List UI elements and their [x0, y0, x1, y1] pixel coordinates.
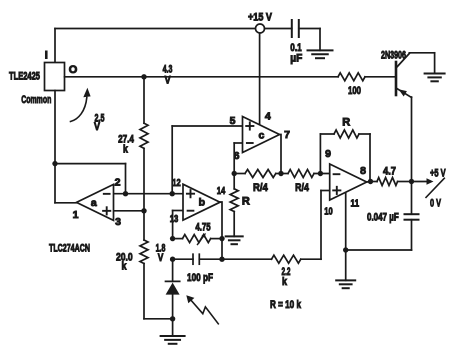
- svg-text:1: 1: [73, 209, 79, 221]
- svg-text:b: b: [199, 196, 205, 208]
- svg-text:7: 7: [284, 129, 290, 141]
- svg-text:+15 V: +15 V: [248, 12, 273, 24]
- svg-text:5: 5: [230, 115, 236, 127]
- svg-text:V: V: [165, 75, 172, 87]
- svg-text:100: 100: [348, 85, 361, 97]
- svg-text:V: V: [94, 121, 101, 133]
- svg-text:µF: µF: [290, 53, 302, 65]
- svg-text:TLC274ACN: TLC274ACN: [49, 242, 90, 254]
- svg-text:14: 14: [217, 185, 226, 197]
- svg-text:R: R: [342, 116, 350, 128]
- svg-text:TLE2425: TLE2425: [9, 70, 40, 82]
- svg-text:I: I: [45, 50, 48, 62]
- svg-text:4: 4: [265, 111, 271, 123]
- svg-text:R/4: R/4: [295, 182, 309, 194]
- svg-text:6: 6: [234, 150, 240, 162]
- svg-text:R: R: [242, 196, 250, 208]
- svg-text:11: 11: [351, 198, 360, 210]
- svg-text:a: a: [91, 197, 97, 209]
- svg-text:k: k: [122, 260, 128, 272]
- svg-text:12: 12: [172, 177, 181, 189]
- svg-text:+5 V: +5 V: [430, 167, 446, 179]
- svg-text:9: 9: [325, 148, 331, 160]
- svg-text:0 V: 0 V: [430, 198, 441, 210]
- svg-text:4.7: 4.7: [383, 165, 396, 177]
- svg-text:O: O: [69, 64, 78, 76]
- svg-text:4.3: 4.3: [163, 63, 173, 75]
- svg-text:Common: Common: [21, 94, 51, 106]
- svg-text:4.75: 4.75: [195, 222, 210, 234]
- svg-text:R = 10 k: R = 10 k: [270, 299, 302, 311]
- svg-text:c: c: [258, 130, 264, 142]
- svg-text:8: 8: [360, 165, 366, 177]
- svg-text:3: 3: [115, 216, 121, 228]
- svg-text:k: k: [282, 276, 288, 288]
- svg-text:100 pF: 100 pF: [187, 272, 213, 284]
- svg-text:13: 13: [170, 213, 179, 225]
- svg-text:0.047 µF: 0.047 µF: [367, 211, 399, 223]
- svg-text:2: 2: [115, 177, 121, 189]
- svg-text:V: V: [158, 252, 164, 264]
- svg-text:k: k: [123, 144, 129, 156]
- svg-text:R/4: R/4: [253, 182, 269, 194]
- svg-text:2N3906: 2N3906: [381, 50, 406, 62]
- svg-text:10: 10: [324, 206, 333, 218]
